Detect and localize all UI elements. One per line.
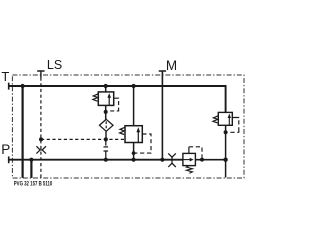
- svg-text:LS: LS: [47, 58, 62, 72]
- wire: filter bottom stub: [105, 131, 107, 139]
- node P/P-stub: [29, 158, 33, 162]
- wire: U2 top connection from T line: [133, 86, 135, 126]
- wire: T gallery line with right branch down to relief valve U3: [9, 86, 226, 112]
- relief valve U2 (LS relief): [120, 86, 151, 162]
- plug X1 between LS rail and P: [104, 139, 109, 159]
- node P/M: [160, 158, 164, 162]
- orifice O2 on P line (pinch X): [168, 153, 176, 167]
- pilot line U2 dashed: [135, 134, 151, 153]
- wire: M gauge line solid: [161, 72, 163, 160]
- svg-text:T: T: [1, 69, 9, 84]
- wire: T stub down through module: [22, 86, 24, 178]
- node plug to P: [104, 158, 108, 162]
- node T/T-stub: [21, 84, 25, 88]
- pilot line U3 dashed: [228, 118, 239, 133]
- port tick M: [159, 70, 166, 72]
- wire: LS stem solid below tick: [40, 72, 42, 78]
- relief valve U1 (pilot supply relief): [93, 86, 119, 119]
- wire: U2 bottom to P line: [133, 143, 135, 160]
- wire: LS pilot rail dashed horizontal: [41, 138, 125, 140]
- wire: U1 bottom to filter: [105, 105, 107, 119]
- wire: right vertical below relief valve U3: [225, 125, 227, 177]
- node U3 outlet: [224, 130, 228, 134]
- node U2 pilot tap: [132, 151, 136, 155]
- pilot line U4 dashed: [188, 147, 190, 154]
- svg-text:M: M: [166, 58, 177, 73]
- node U4 pilot junction: [200, 158, 204, 162]
- node LS rail / filter branch: [104, 137, 108, 141]
- port tick LS: [37, 70, 44, 72]
- spring U2: [120, 127, 126, 134]
- svg-text:PVG 32 157 B 5110: PVG 32 157 B 5110: [14, 181, 53, 187]
- wire: P gallery line right part: [195, 159, 225, 161]
- filter F1: [100, 119, 114, 139]
- orifice O1 on LS line: [36, 146, 46, 153]
- wire: P stub down through module: [30, 160, 32, 178]
- svg-text:P: P: [1, 142, 10, 157]
- node U2 on P line: [132, 158, 136, 162]
- wire: P gallery line left part: [9, 159, 183, 161]
- spring U3: [213, 116, 219, 123]
- pilot line U1 dashed: [108, 98, 119, 111]
- wire: U1 top connection: [105, 86, 107, 92]
- relief valve U3 (port relief right): [213, 112, 239, 134]
- node U1 outlet: [104, 110, 108, 114]
- spring U4 below: [186, 166, 192, 174]
- module frame (dash-dot boundary): [12, 75, 244, 178]
- node right branch on P: [223, 158, 227, 162]
- pressure reducing valve U4 (bottom right): [183, 147, 204, 173]
- node T/U2: [132, 84, 136, 88]
- spring U1: [93, 94, 99, 102]
- node LS rail / orifice branch: [39, 137, 43, 141]
- node T/U1: [104, 84, 108, 88]
- port tick P: [8, 156, 10, 163]
- wire: LS pilot line dashed vertical: [40, 78, 42, 178]
- port tick T: [8, 83, 10, 90]
